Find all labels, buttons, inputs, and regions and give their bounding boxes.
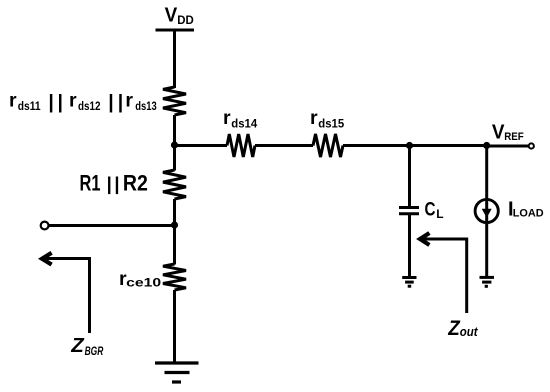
svg-text:ds12: ds12: [78, 99, 101, 113]
terminal VREF open circle: [529, 143, 534, 148]
wire rds14 to rds15: [255, 144, 313, 147]
svg-text:R2: R2: [123, 171, 148, 196]
svg-text:BGR: BGR: [85, 344, 104, 358]
svg-text:V: V: [492, 122, 505, 144]
wire node A to rds14: [175, 144, 228, 147]
resistor R1||R2: [163, 170, 186, 199]
resistor rds14: [227, 134, 255, 157]
node B junction dot: [171, 221, 178, 228]
node C junction dot: [406, 142, 413, 149]
wire VDD bar to resistor top: [173, 30, 176, 88]
wire R1||R2 to node B: [173, 199, 176, 265]
wire node C to capacitor: [408, 146, 411, 207]
svg-text:REF: REF: [504, 131, 524, 143]
resistor rce10: [163, 264, 186, 290]
wire left terminal to node B: [49, 224, 175, 227]
svg-text:r: r: [9, 90, 17, 112]
svg-text:R1: R1: [80, 171, 101, 196]
svg-text:r: r: [223, 107, 231, 129]
svg-text:ds11: ds11: [18, 99, 41, 113]
capacitor CL top plate: [399, 206, 419, 209]
svg-text:||: ||: [48, 91, 66, 113]
svg-text:Z: Z: [70, 335, 84, 357]
svg-text:ds13: ds13: [135, 99, 157, 113]
wire resistor to node A: [173, 115, 176, 171]
svg-text:out: out: [460, 325, 479, 339]
ZBGR probe arrow: [44, 259, 90, 334]
wire capacitor to ground: [408, 215, 411, 277]
svg-text:DD: DD: [177, 15, 194, 27]
capacitor CL bottom plate: [399, 212, 419, 215]
svg-text:r: r: [125, 90, 133, 112]
wire node D through current source: [485, 146, 488, 277]
svg-text:ds15: ds15: [318, 117, 344, 131]
power VDD supply bar: [156, 29, 195, 32]
current source ILOAD circle: [475, 199, 498, 222]
svg-text:r: r: [310, 107, 318, 129]
wire rds15 to node C: [343, 144, 410, 147]
Zout probe arrow head: [420, 233, 429, 245]
svg-text:V: V: [165, 5, 178, 27]
node D junction dot: [483, 142, 490, 149]
Zout probe arrow: [422, 239, 467, 313]
svg-text:C: C: [425, 200, 436, 221]
svg-text:||: ||: [107, 173, 123, 194]
svg-text:LOAD: LOAD: [513, 207, 544, 219]
svg-text:L: L: [436, 207, 443, 221]
node A junction dot: [171, 141, 178, 148]
svg-text:ce10: ce10: [126, 276, 161, 290]
current source ILOAD arrow head: [482, 209, 492, 218]
wire rce10 to ground: [173, 290, 176, 363]
ground below CL: [402, 278, 416, 287]
wire node D to VREF terminal: [487, 145, 529, 148]
wire node C to node D: [410, 144, 487, 147]
ZBGR probe arrow head: [42, 253, 52, 265]
svg-text:ds14: ds14: [231, 117, 257, 131]
svg-text:r: r: [69, 90, 77, 112]
terminal left open circle: [41, 222, 49, 230]
svg-text:||: ||: [108, 91, 127, 113]
resistor rds11||rds12||rds13: [163, 87, 186, 115]
resistor rds15: [313, 134, 343, 157]
ground main: [155, 363, 199, 382]
ground below ILOAD: [480, 277, 495, 286]
